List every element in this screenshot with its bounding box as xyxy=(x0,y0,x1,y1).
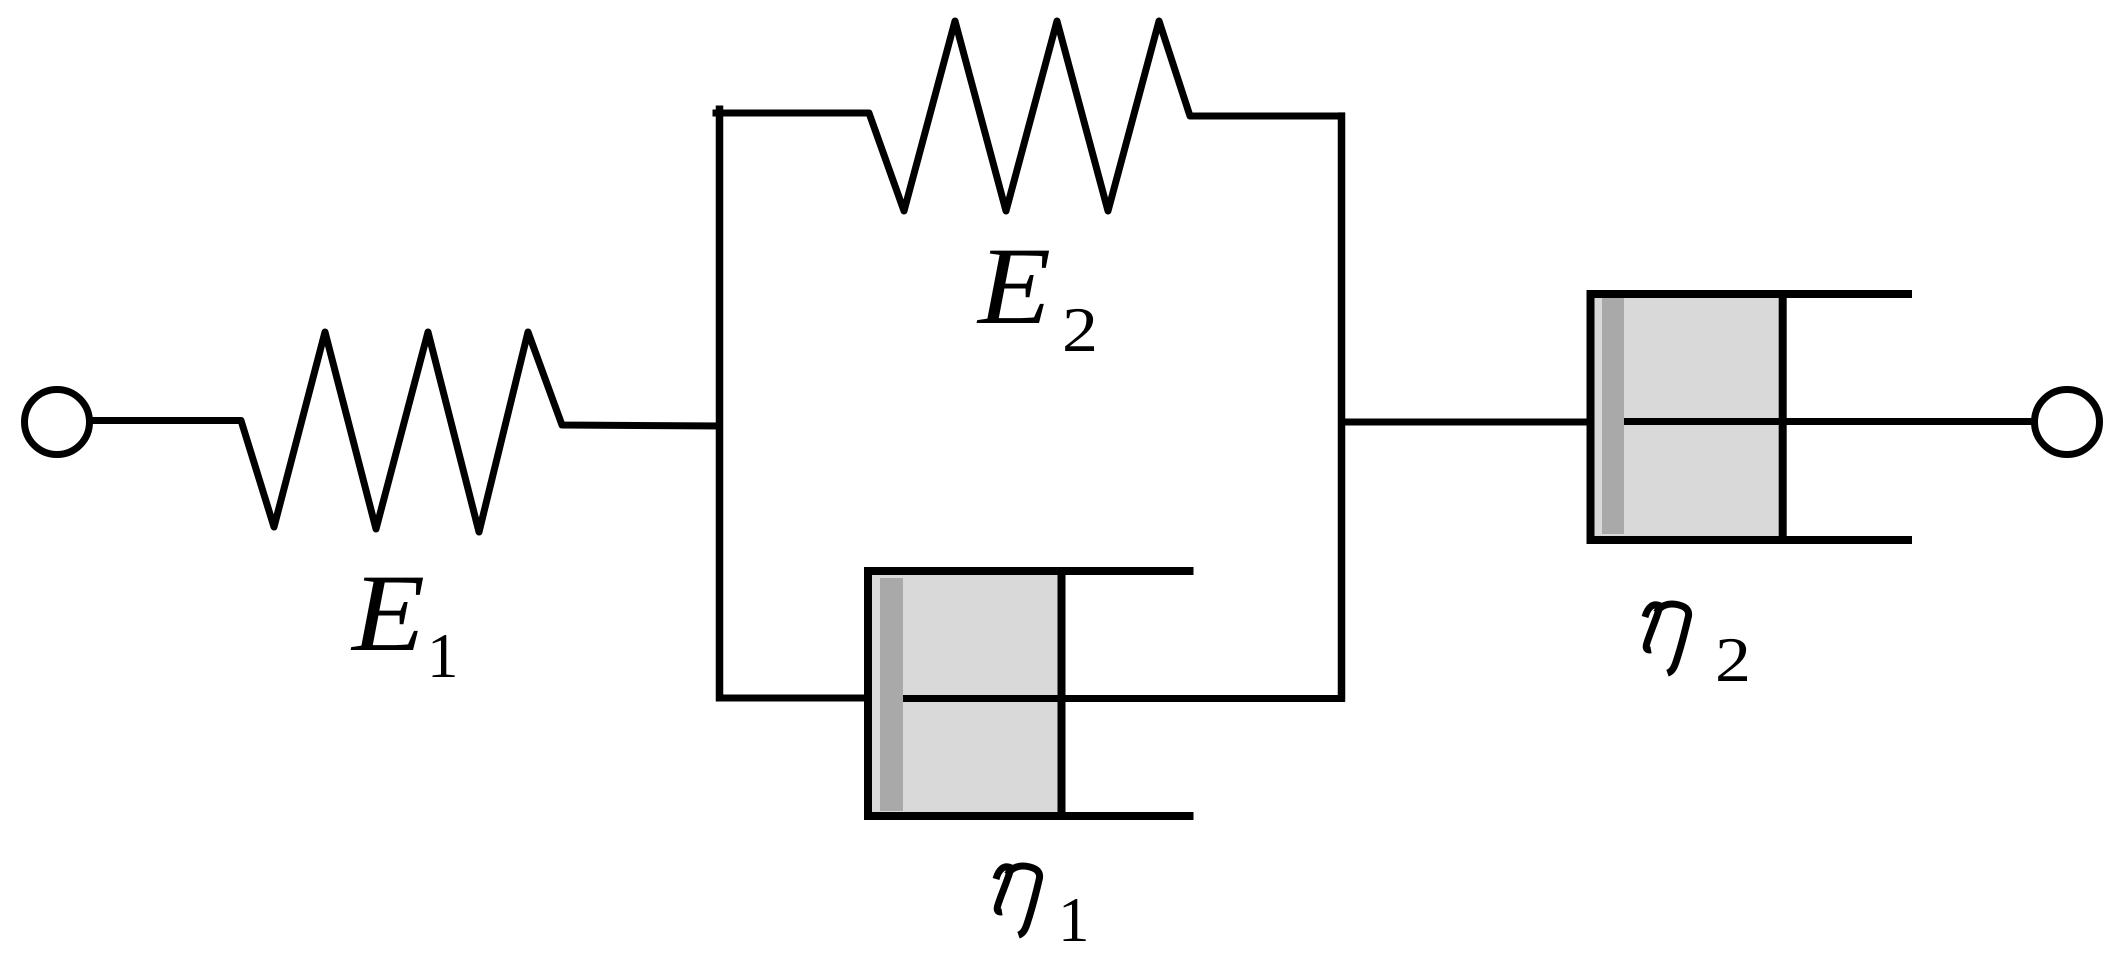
svg-text:1: 1 xyxy=(1058,885,1090,955)
svg-text:2: 2 xyxy=(1062,295,1098,365)
svg-text:E: E xyxy=(976,225,1051,347)
svg-text:E: E xyxy=(350,552,425,674)
svg-text:2: 2 xyxy=(1715,625,1751,695)
svg-text:1: 1 xyxy=(427,621,459,691)
